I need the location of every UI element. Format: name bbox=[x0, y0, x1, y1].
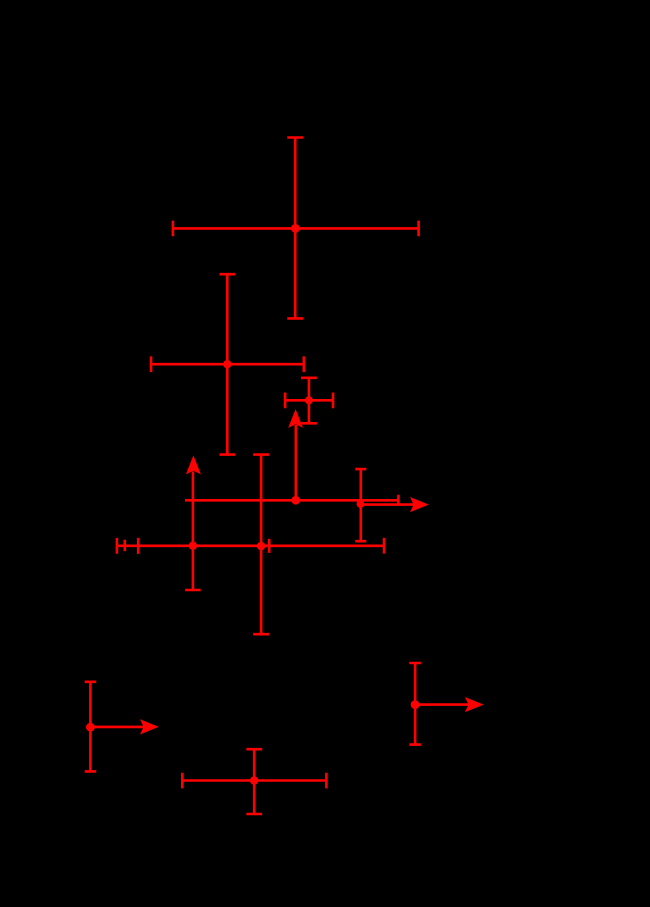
P4b right-limit stem bbox=[361, 503, 414, 506]
P3 marker bbox=[305, 396, 313, 404]
P4 vertical upper-limit stem bbox=[294, 425, 297, 500]
P8 right arrowhead bbox=[465, 697, 484, 712]
P2 horizontal error bar bbox=[151, 356, 304, 372]
P5 vertical bar: arrow stem up, cap bottom bbox=[185, 472, 201, 591]
P5 up arrowhead bbox=[186, 455, 201, 474]
P1 vertical error bar bbox=[287, 138, 303, 319]
P5+P6 shared horizontal line bbox=[117, 544, 384, 547]
P3 horizontal error bar bbox=[285, 393, 333, 409]
P4 horizontal error bar with right cap bbox=[185, 495, 398, 506]
P1 horizontal error bar bbox=[173, 221, 419, 237]
P7 vertical error bar bbox=[85, 682, 97, 772]
P7 right-limit stem bbox=[90, 726, 144, 729]
P2 marker bbox=[223, 360, 231, 368]
P7 right arrowhead bbox=[140, 719, 159, 734]
P4b right arrowhead bbox=[410, 497, 429, 512]
small cap on shared line bbox=[124, 540, 127, 552]
P7 marker bbox=[86, 723, 95, 732]
P6 horizontal caps bbox=[138, 538, 384, 554]
P5 marker bbox=[189, 542, 197, 550]
P5 horizontal caps bbox=[117, 538, 269, 554]
P9 vertical error bar bbox=[246, 749, 262, 814]
P6 vertical error bar bbox=[253, 455, 269, 635]
P4 marker bbox=[291, 496, 300, 505]
P3 vertical error bar bbox=[301, 378, 317, 424]
P4b marker bbox=[357, 500, 365, 508]
P8 right-limit stem bbox=[415, 703, 469, 706]
P2 vertical error bar bbox=[220, 274, 236, 454]
P1 marker bbox=[291, 224, 300, 233]
P9 marker bbox=[250, 776, 259, 785]
P9 horizontal error bar bbox=[182, 773, 326, 789]
P8 vertical error bar bbox=[409, 663, 421, 745]
P4 up arrowhead bbox=[288, 409, 303, 428]
P6 marker bbox=[257, 542, 266, 551]
P4b vertical error bar bbox=[355, 469, 366, 541]
P8 marker bbox=[411, 700, 420, 709]
